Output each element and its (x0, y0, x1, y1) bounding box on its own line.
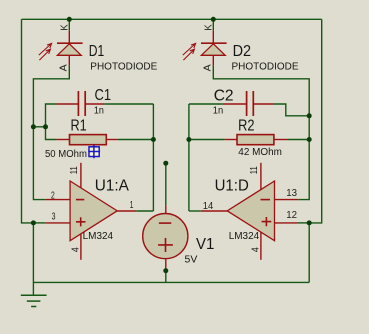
label 50 MOhm (R1) (45, 149, 87, 160)
svg-text:U1:A: U1:A (95, 178, 130, 195)
svg-text:K: K (204, 24, 215, 31)
wire R1 right (118, 139, 153, 141)
wire feedback left vertical (152, 104, 154, 211)
wire R2 right (288, 139, 310, 141)
svg-text:V1: V1 (196, 236, 214, 253)
wire D1 anode to pin2 (33, 65, 69, 199)
label D1 (89, 43, 105, 60)
wire V1 bottom to rail (165, 271, 167, 282)
svg-text:K: K (60, 24, 71, 31)
svg-text:LM324: LM324 (229, 231, 260, 242)
svg-text:5V: 5V (185, 254, 198, 265)
junction pin3 / ground (31, 220, 36, 225)
svg-text:13: 13 (286, 188, 297, 199)
label D2 (233, 43, 252, 60)
svg-text:PHOTODIODE: PHOTODIODE (90, 61, 157, 72)
wire U1:A output (136, 210, 153, 212)
wire pin3 (33, 222, 45, 224)
junction V1 bottom (163, 268, 168, 273)
junction R2 right (307, 137, 312, 142)
wire pin12 node to bottom rail (308, 223, 310, 283)
wire C2 right jog (274, 104, 309, 116)
junction R2 left / feedback (186, 137, 191, 142)
svg-text:42 MOhm: 42 MOhm (238, 147, 282, 158)
label 1n (C2) (213, 105, 223, 116)
pin 11 (U1:D) (249, 166, 260, 174)
wire top rail (22, 18, 322, 20)
pin 3 (52, 212, 56, 223)
junction C1/R1 branch (43, 124, 48, 129)
svg-text:14: 14 (203, 201, 214, 212)
capacitor C1 (56, 91, 104, 116)
wire node A branch link (33, 126, 45, 128)
junction anode branch left (31, 124, 36, 129)
svg-text:11: 11 (69, 166, 80, 174)
pin A (D1) (59, 64, 70, 71)
label 1n (C1) (94, 106, 104, 117)
svg-text:C1: C1 (95, 87, 112, 104)
resistor R2 (225, 135, 288, 145)
pin K (D2) (204, 24, 215, 31)
wire C1/R1 left branch (46, 104, 57, 140)
junction R1 right / feedback (151, 137, 156, 142)
svg-text:11: 11 (249, 166, 260, 174)
wire D2 anode to pin13 (213, 65, 309, 199)
wire pin12 (298, 222, 310, 224)
svg-text:D2: D2 (233, 43, 252, 60)
pin 13 (286, 188, 297, 199)
svg-text:A: A (203, 64, 214, 71)
label LM324 (U1:D) (229, 231, 260, 242)
wire C1 right to feedback (104, 103, 153, 105)
resistor R1 (56, 135, 118, 145)
svg-text:R2: R2 (238, 117, 254, 134)
junction D1 cathode / top rail (67, 17, 72, 22)
label LM324 (U1:A) (83, 231, 114, 242)
photodiode D2 (183, 31, 227, 66)
junction pin12 / rails (307, 220, 312, 225)
svg-text:4: 4 (71, 247, 82, 252)
wire bottom rail (33, 281, 309, 283)
pin 11 (U1:A) (69, 166, 80, 174)
capacitor C2 (223, 91, 274, 116)
svg-text:U1:D: U1:D (215, 178, 249, 195)
wire left outer (top rail to pin3 node) (22, 19, 34, 223)
ground (21, 295, 47, 306)
op-amp U1:A (45, 163, 136, 260)
label U1:D (215, 178, 249, 195)
svg-text:3: 3 (52, 212, 56, 223)
wire ground drop (32, 223, 34, 295)
voltage source V1 (143, 206, 188, 271)
label C2 (214, 87, 234, 104)
pin 12 (286, 210, 297, 221)
label 42 MOhm (R2) (238, 147, 282, 158)
wire R2 left (189, 139, 225, 141)
wire right outer (top rail to pin12 node) (309, 19, 322, 223)
wire D1 cathode (68, 19, 70, 30)
junction D2 cathode / top rail (211, 17, 216, 22)
svg-text:LM324: LM324 (83, 231, 114, 242)
svg-text:D1: D1 (89, 43, 105, 60)
svg-text:50 MOhm: 50 MOhm (45, 149, 87, 160)
svg-text:PHOTODIODE: PHOTODIODE (232, 61, 299, 72)
pin 4 (U1:D) (251, 247, 262, 252)
svg-text:12: 12 (286, 210, 297, 221)
svg-text:4: 4 (251, 247, 262, 252)
label V1 (196, 236, 214, 253)
wire U1:D output pin14 (189, 210, 201, 212)
pin K (D1) (60, 24, 71, 31)
wire feedback right vertical (188, 104, 190, 211)
label R1 (71, 117, 87, 134)
label C1 (95, 87, 112, 104)
label PHOTODIODE (D2) (232, 61, 299, 72)
svg-text:1: 1 (130, 200, 134, 211)
svg-text:R1: R1 (71, 117, 87, 134)
label 5V (185, 254, 198, 265)
junction C2 right (307, 113, 312, 118)
label R2 (238, 117, 254, 134)
svg-text:A: A (59, 64, 70, 71)
pin A (D2) (203, 64, 214, 71)
pin 4 (U1:A) (71, 247, 82, 252)
wire C2 left (189, 103, 223, 105)
node V1 top (163, 161, 168, 166)
svg-text:1n: 1n (94, 106, 104, 117)
pin 1 (130, 200, 134, 211)
wire D2 cathode (212, 19, 214, 30)
photodiode D1 (39, 31, 83, 66)
pin 2 (51, 190, 55, 201)
label U1:A (95, 178, 130, 195)
svg-text:2: 2 (51, 190, 55, 201)
pin 14 (203, 201, 214, 212)
origin marker (blue) on R1 (88, 145, 100, 159)
svg-text:1n: 1n (213, 105, 223, 116)
svg-text:C2: C2 (214, 87, 234, 104)
op-amp U1:D (201, 163, 298, 260)
wire V1 top (165, 163, 167, 206)
label PHOTODIODE (D1) (90, 61, 157, 72)
